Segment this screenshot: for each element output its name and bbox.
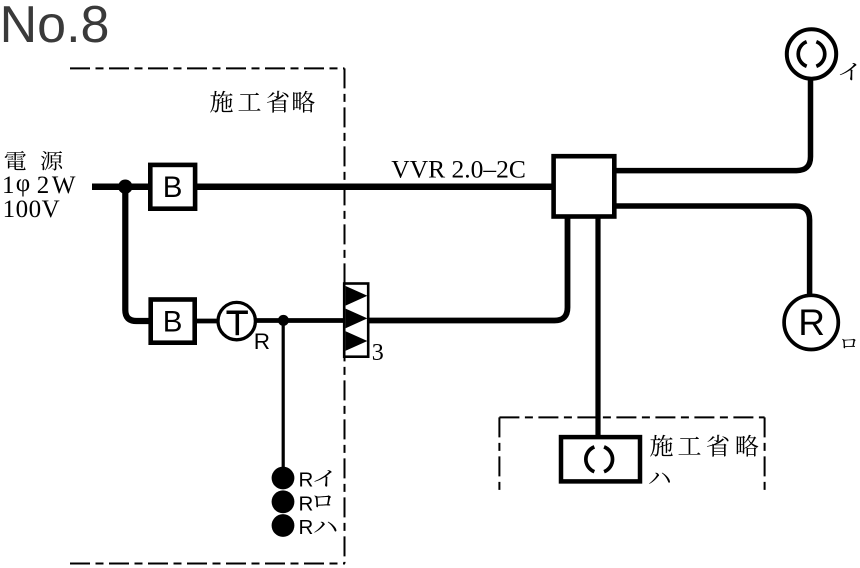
ceiling receptacle イ (round) — [787, 29, 836, 78]
svg-text:3: 3 — [372, 340, 384, 366]
svg-text:R: R — [299, 469, 314, 492]
junction box — [554, 156, 615, 216]
receptacle ハ (rect fixture) — [561, 437, 640, 481]
dash-dot boundary of left omitted-work region — [70, 68, 345, 563]
svg-text:B: B — [163, 306, 183, 339]
label 施工省略 (right) — [650, 435, 758, 457]
svg-text:No.8: No.8 — [0, 0, 109, 54]
svg-text:R: R — [254, 329, 270, 354]
svg-text:1: 1 — [2, 172, 15, 199]
label イ — [840, 63, 857, 80]
label ハ — [649, 473, 670, 484]
node: junction dot on source wire — [118, 180, 132, 194]
wire: timer T to connector strip — [255, 318, 345, 323]
svg-text:B: B — [163, 171, 183, 204]
wire: junction box to ceiling receptacle イ — [615, 80, 811, 171]
label ロ — [842, 339, 856, 348]
wire: branch from junction down to breaker B2 — [125, 187, 150, 321]
node: branch dot to switches — [278, 315, 289, 326]
switch Rロ — [272, 490, 295, 513]
timer T — [218, 302, 255, 339]
svg-text:R: R — [299, 516, 314, 539]
wire: junction box down-left leg to connector strip — [369, 216, 568, 321]
wire: thin drop to switches — [282, 323, 285, 468]
svg-text:2: 2 — [37, 172, 50, 199]
svg-text:φ: φ — [16, 170, 30, 197]
wire: junction box to lamp R — [615, 206, 810, 294]
svg-text:100V: 100V — [3, 196, 61, 223]
wire: VVR main run B1 to junction box — [195, 183, 553, 190]
svg-text:R: R — [299, 492, 314, 515]
switch Rイ — [272, 467, 295, 490]
wire: junction box down-right leg to receptacle ハ — [595, 216, 600, 436]
wire: source feed to breaker B1 — [92, 183, 150, 190]
breaker B2 — [151, 300, 195, 343]
wire: breaker B2 to timer T — [195, 319, 218, 324]
label Rロ — [299, 492, 331, 515]
label 1phi2W — [2, 170, 76, 199]
svg-text:R: R — [798, 302, 825, 343]
switch Rハ — [272, 514, 295, 537]
svg-text:VVR 2.0–2C: VVR 2.0–2C — [391, 154, 526, 183]
dash-dot boundary of right omitted-work region — [499, 417, 764, 491]
label 施工省略 (top) — [210, 91, 315, 113]
label 電 源 (power source) — [5, 151, 62, 171]
label Rハ — [299, 516, 337, 539]
svg-text:W: W — [52, 172, 76, 199]
lamp R (round fixture) — [784, 295, 838, 349]
connector strip (3-terminal) — [344, 284, 368, 357]
label Rイ — [299, 469, 332, 492]
breaker B1 — [150, 165, 195, 209]
